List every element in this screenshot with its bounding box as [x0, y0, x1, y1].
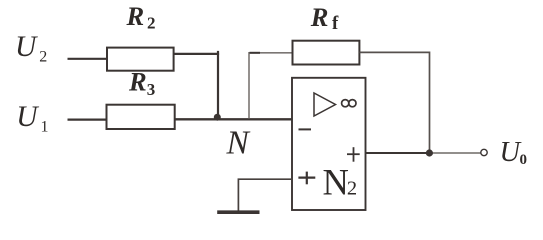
wire U2 lead — [68, 58, 109, 60]
svg-text:2: 2 — [147, 14, 156, 33]
wire R2 output to node — [174, 53, 220, 55]
label R2 — [126, 1, 156, 32]
label U1 — [16, 101, 48, 136]
plus sign output — [347, 147, 360, 162]
resistor Rf — [293, 41, 360, 65]
wire dark stub at Rf left — [250, 52, 261, 54]
wire Rf left branch from node — [249, 53, 293, 119]
wire U1 lead — [68, 118, 109, 120]
svg-text:f: f — [332, 13, 339, 34]
label U2 — [15, 31, 47, 65]
svg-text:2: 2 — [347, 178, 357, 200]
svg-text:3: 3 — [147, 80, 156, 99]
svg-text:0: 0 — [520, 152, 528, 168]
output terminal circle — [481, 149, 487, 155]
svg-text:N: N — [226, 125, 251, 162]
svg-text:R: R — [126, 1, 145, 31]
wire node N to op-amp inverting input — [174, 118, 294, 120]
wire non-inverting input to ground — [238, 179, 293, 211]
label N2 — [323, 161, 358, 202]
minus sign inverting input — [299, 128, 312, 130]
label R3 — [128, 66, 155, 99]
svg-text:U: U — [15, 31, 38, 63]
label Uo — [500, 137, 528, 168]
svg-text:U: U — [16, 101, 39, 133]
svg-text:2: 2 — [39, 48, 47, 65]
ground — [217, 210, 259, 214]
junction dot node N — [214, 114, 221, 121]
wire Rf right branch down to output — [359, 52, 429, 153]
wire output to terminal — [430, 152, 481, 154]
infinity gain symbol — [342, 100, 356, 107]
resistor R3 — [107, 105, 175, 129]
wire output — [366, 152, 431, 154]
svg-text:R: R — [310, 2, 329, 32]
svg-text:N: N — [323, 161, 349, 202]
op-amp N2 box — [292, 78, 366, 210]
svg-text:R: R — [128, 66, 147, 96]
junction dot output — [426, 149, 433, 156]
label Rf — [310, 2, 339, 34]
op-amp triangle — [314, 93, 336, 116]
svg-text:1: 1 — [41, 119, 49, 136]
resistor R2 — [107, 48, 174, 71]
plus sign non-inverting input — [298, 172, 315, 185]
